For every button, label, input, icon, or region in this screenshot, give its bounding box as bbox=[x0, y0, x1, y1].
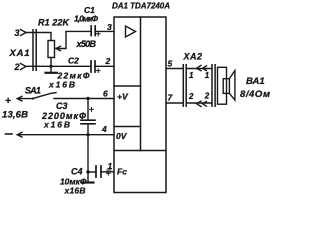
svg-text:+: + bbox=[5, 96, 11, 107]
svg-text:1: 1 bbox=[108, 161, 113, 171]
svg-text:2: 2 bbox=[188, 92, 194, 101]
amplifier triangle bbox=[126, 26, 136, 37]
wire minus to pin 4 bbox=[17, 134, 114, 136]
svg-text:7: 7 bbox=[168, 93, 174, 103]
junction dot C4 bbox=[86, 170, 89, 173]
junction dot C3 top bbox=[86, 97, 89, 100]
wire wiper to C1 bbox=[56, 31, 91, 48]
C1 plus bbox=[96, 32, 100, 36]
wire C4 to pin 1 bbox=[101, 171, 114, 173]
svg-text:C2: C2 bbox=[68, 56, 79, 66]
ground bbox=[50, 66, 52, 72]
plus chevron bbox=[17, 96, 22, 101]
svg-text:1: 1 bbox=[205, 71, 210, 80]
C3 plus bbox=[90, 108, 94, 112]
C3 top lead bbox=[87, 99, 89, 120]
IC divider Fc bbox=[114, 150, 166, 152]
ground bbox=[83, 181, 94, 183]
wire XA2 top bbox=[186, 68, 212, 70]
junction dot R1/ground bbox=[49, 65, 52, 68]
switch SA1 lever bbox=[32, 98, 34, 100]
wire SA1 to pin 6 bbox=[54, 98, 114, 100]
wire pin 7 to XA2 bbox=[166, 102, 183, 104]
svg-text:x16В: x16В bbox=[43, 120, 70, 130]
IC internal vertical divider bbox=[140, 17, 142, 151]
svg-text:XA2: XA2 bbox=[183, 52, 203, 62]
svg-text:0V: 0V bbox=[116, 131, 128, 141]
R1 wiper arrow bbox=[56, 46, 61, 50]
svg-text:x16В: x16В bbox=[48, 80, 75, 90]
wire C1 to pin 3 bbox=[95, 30, 114, 32]
svg-text:x50В: x50В bbox=[76, 39, 97, 49]
svg-text:2: 2 bbox=[105, 56, 111, 66]
IC divider amp/+V bbox=[114, 85, 141, 87]
wire XA1 pin2 to C2 bbox=[26, 65, 90, 67]
wire pin 5 to XA2 bbox=[166, 68, 183, 70]
resistor R1 body bbox=[48, 41, 55, 58]
junction dot C3 bottom bbox=[86, 133, 89, 136]
svg-text:x16В: x16В bbox=[64, 186, 86, 196]
svg-text:5: 5 bbox=[168, 59, 173, 69]
svg-text:2: 2 bbox=[14, 62, 20, 72]
svg-text:ВА1: ВА1 bbox=[246, 76, 265, 87]
svg-text:3: 3 bbox=[15, 28, 20, 38]
capacitor C3 plates bbox=[81, 120, 95, 124]
svg-text:C4: C4 bbox=[71, 167, 83, 177]
svg-text:Fc: Fc bbox=[117, 167, 127, 177]
R1 bottom lead bbox=[50, 58, 52, 67]
svg-text:3: 3 bbox=[107, 22, 112, 32]
capacitor C1 plates bbox=[91, 26, 95, 36]
IC DA1 outer box bbox=[114, 17, 166, 193]
svg-text:DA1 TDA7240A: DA1 TDA7240A bbox=[112, 2, 170, 11]
svg-text:1: 1 bbox=[189, 71, 194, 80]
speaker cone bbox=[229, 71, 235, 101]
svg-text:C3: C3 bbox=[56, 101, 68, 111]
svg-text:1,0мкФ: 1,0мкФ bbox=[74, 14, 98, 24]
IC divider +V/0V bbox=[114, 126, 141, 128]
XA2 connector bars right bbox=[212, 65, 215, 107]
svg-text:6: 6 bbox=[103, 89, 108, 99]
wire C4 left bbox=[88, 171, 95, 173]
svg-text:R1 22K: R1 22K bbox=[38, 18, 71, 28]
C4 plus bbox=[106, 171, 110, 175]
minus chevron bbox=[17, 132, 22, 137]
capacitor C4 plates bbox=[96, 166, 101, 177]
XA1 connector bars bbox=[33, 30, 36, 70]
capacitor C2 plates bbox=[91, 61, 95, 72]
svg-text:2: 2 bbox=[204, 92, 210, 101]
XA1 pin 2 chevron bbox=[21, 64, 27, 70]
XA2 connector bars left bbox=[183, 65, 186, 107]
wire C2 to pin 2 bbox=[95, 65, 114, 67]
C3 bottom lead bbox=[87, 124, 89, 135]
wire XA2 bottom bbox=[186, 102, 212, 104]
svg-text:13,6В: 13,6В bbox=[2, 110, 28, 121]
svg-text:4: 4 bbox=[101, 124, 107, 134]
svg-text:+V: +V bbox=[117, 91, 129, 101]
svg-text:8/4Ом: 8/4Ом bbox=[240, 89, 270, 100]
minus terminal bbox=[6, 133, 13, 135]
XA2 bottom chevrons bbox=[197, 101, 207, 106]
speaker driver bbox=[223, 79, 229, 94]
wire XA1 pin3 to R1 top bbox=[26, 33, 51, 41]
svg-text:SA1: SA1 bbox=[25, 86, 41, 96]
wire plus to SA1 bbox=[17, 98, 32, 100]
C2 plus bbox=[96, 69, 100, 73]
svg-text:XA1: XA1 bbox=[9, 48, 30, 59]
wire down to ground bbox=[87, 135, 89, 182]
speaker BA1 box bbox=[218, 67, 227, 104]
XA2 top chevrons bbox=[197, 65, 207, 70]
XA1 pin 3 chevron bbox=[21, 30, 27, 36]
